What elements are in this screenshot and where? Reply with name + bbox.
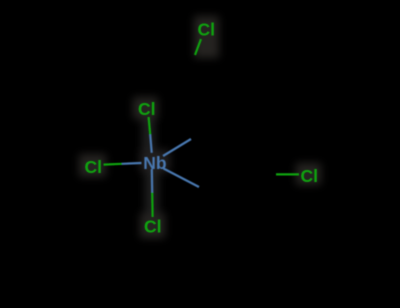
wire: Nb-Cl left bond (blue half) — [122, 162, 142, 165]
wire: C-Cl stub to right Cl — [276, 173, 299, 175]
jpeg-artifact glow patches (decorative) — [79, 16, 321, 238]
wire: C-Cl stub to top Cl — [195, 39, 201, 55]
wire: Nb-Cl down bond (blue half) — [151, 169, 154, 193]
wire: Nb-Cl down bond (green half) — [151, 193, 154, 218]
svg-text:Cl: Cl — [85, 157, 103, 177]
wire: Nb-Cl left bond (green half) — [104, 163, 123, 166]
wire: Nb-Cl axial up bond (blue half) — [150, 135, 152, 153]
wire: Nb-C lower-right half-bond — [164, 169, 200, 188]
svg-text:Cl: Cl — [138, 99, 156, 119]
svg-text:Nb: Nb — [143, 153, 166, 173]
wire: Nb-C upper-right half-bond — [163, 139, 191, 156]
wire: Nb-Cl axial up bond (green half) — [149, 117, 151, 135]
svg-text:Cl: Cl — [301, 166, 319, 186]
svg-text:Cl: Cl — [144, 216, 162, 236]
svg-text:Cl: Cl — [198, 19, 216, 39]
